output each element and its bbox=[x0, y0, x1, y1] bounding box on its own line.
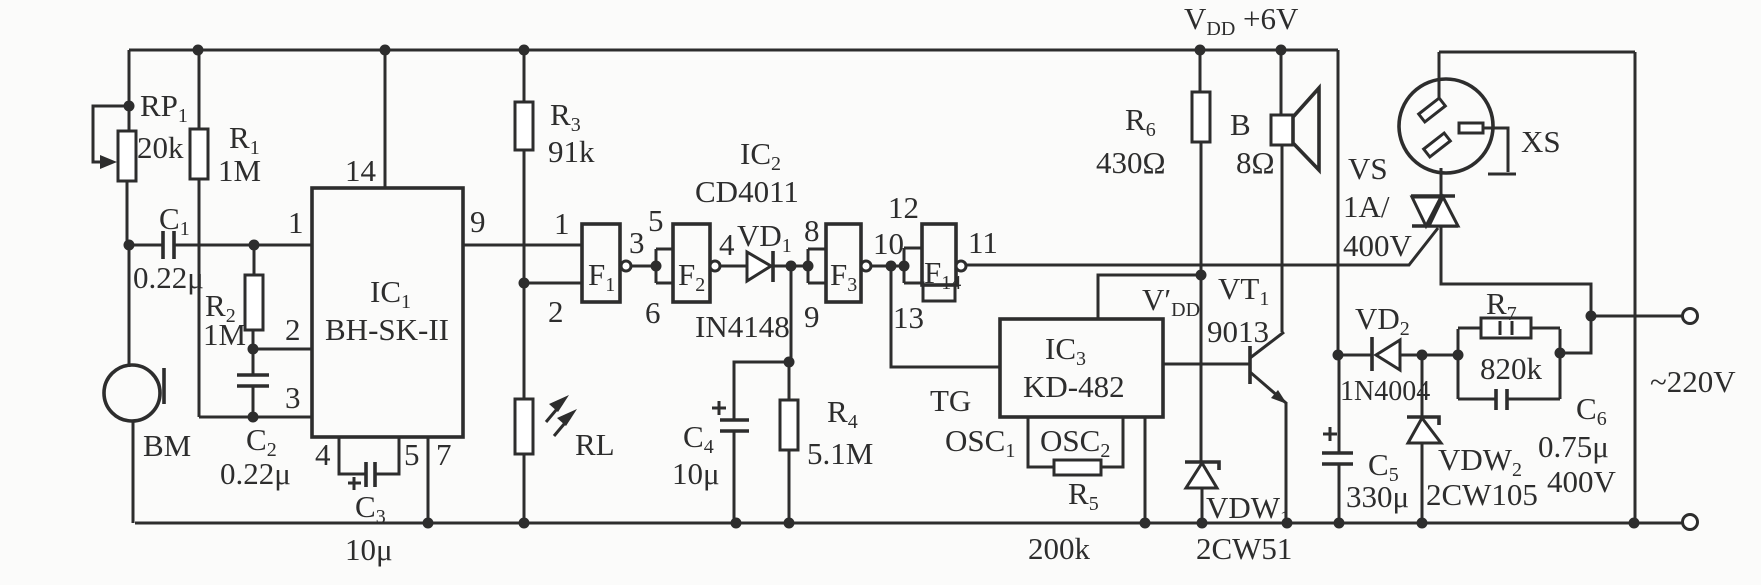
svg-text:1N4004: 1N4004 bbox=[1340, 376, 1430, 407]
svg-text:OSC1: OSC1 bbox=[945, 423, 1015, 462]
svg-text:KD-482: KD-482 bbox=[1023, 369, 1125, 404]
svg-text:20k: 20k bbox=[137, 130, 184, 165]
svg-text:430Ω: 430Ω bbox=[1096, 145, 1166, 180]
svg-text:12: 12 bbox=[888, 190, 919, 225]
svg-text:B: B bbox=[1230, 107, 1251, 142]
svg-text:1M: 1M bbox=[203, 317, 246, 352]
svg-text:0.22μ: 0.22μ bbox=[133, 260, 204, 295]
svg-text:200k: 200k bbox=[1028, 531, 1091, 566]
svg-text:13: 13 bbox=[893, 300, 924, 335]
svg-text:3: 3 bbox=[629, 225, 645, 260]
svg-text:BM: BM bbox=[143, 428, 191, 463]
svg-text:VS: VS bbox=[1348, 151, 1388, 186]
svg-text:5.1M: 5.1M bbox=[807, 436, 873, 471]
svg-text:5: 5 bbox=[648, 203, 664, 238]
svg-text:9013: 9013 bbox=[1207, 314, 1269, 349]
svg-text:8Ω: 8Ω bbox=[1236, 145, 1275, 180]
svg-text:OSC2: OSC2 bbox=[1040, 423, 1110, 462]
svg-text:VDW1: VDW1 bbox=[1206, 490, 1290, 529]
svg-text:14: 14 bbox=[345, 153, 377, 188]
svg-text:0.22μ: 0.22μ bbox=[220, 456, 291, 491]
svg-text:400V: 400V bbox=[1547, 464, 1617, 499]
svg-text:TG: TG bbox=[930, 383, 971, 418]
svg-text:820k: 820k bbox=[1480, 351, 1543, 386]
svg-text:1: 1 bbox=[288, 205, 304, 240]
svg-text:2CW51: 2CW51 bbox=[1196, 531, 1292, 566]
svg-text:9: 9 bbox=[470, 204, 486, 239]
svg-text:~220V: ~220V bbox=[1650, 364, 1736, 399]
svg-text:RL: RL bbox=[575, 427, 615, 462]
svg-text:91k: 91k bbox=[548, 134, 595, 169]
svg-text:XS: XS bbox=[1521, 124, 1561, 159]
svg-text:1: 1 bbox=[554, 206, 570, 241]
svg-text:BH-SK-II: BH-SK-II bbox=[325, 312, 449, 347]
svg-text:2: 2 bbox=[548, 294, 564, 329]
svg-text:1A/: 1A/ bbox=[1343, 189, 1390, 224]
svg-text:1M: 1M bbox=[218, 153, 261, 188]
svg-text:8: 8 bbox=[804, 213, 820, 248]
svg-text:3: 3 bbox=[285, 380, 301, 415]
svg-text:4: 4 bbox=[719, 227, 735, 262]
svg-text:7: 7 bbox=[436, 437, 452, 472]
svg-text:0.75μ: 0.75μ bbox=[1538, 429, 1609, 464]
svg-text:11: 11 bbox=[968, 225, 998, 260]
svg-text:CD4011: CD4011 bbox=[695, 174, 799, 209]
svg-text:330μ: 330μ bbox=[1346, 479, 1409, 514]
svg-text:VDW2: VDW2 bbox=[1438, 442, 1522, 481]
svg-text:5: 5 bbox=[404, 437, 420, 472]
svg-text:2CW105: 2CW105 bbox=[1426, 477, 1538, 512]
svg-text:9: 9 bbox=[804, 299, 820, 334]
svg-text:10μ: 10μ bbox=[672, 456, 720, 491]
svg-text:VDD +6V: VDD +6V bbox=[1184, 1, 1299, 40]
svg-text:2: 2 bbox=[285, 312, 301, 347]
svg-text:IN4148: IN4148 bbox=[695, 309, 790, 344]
svg-text:400V: 400V bbox=[1343, 228, 1413, 263]
svg-text:10: 10 bbox=[873, 226, 904, 261]
svg-text:6: 6 bbox=[645, 295, 661, 330]
svg-text:10μ: 10μ bbox=[345, 532, 393, 567]
svg-text:4: 4 bbox=[315, 437, 331, 472]
